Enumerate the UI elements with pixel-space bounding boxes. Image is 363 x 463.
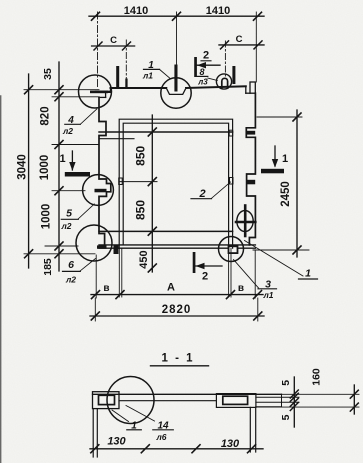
detail circle 1 (top-middle)	[161, 78, 191, 108]
callout label 8/Л3	[197, 76, 218, 80]
svg-text:3: 3	[265, 278, 271, 290]
panel bottom edge (double line)	[99, 245, 255, 248]
svg-text:5: 5	[66, 207, 72, 219]
wire chain extension lines	[24, 90, 99, 254]
section mark 1 (left)	[65, 151, 90, 177]
svg-text:850: 850	[134, 200, 148, 220]
detail circle 3 (bottom-right)	[219, 237, 244, 262]
rib line upper	[99, 131, 233, 133]
svg-text:820: 820	[40, 106, 52, 125]
svg-text:1410: 1410	[206, 5, 230, 17]
callout label 14/Л6 (section)	[126, 406, 173, 430]
lifting loop bar right (filled)	[232, 66, 235, 84]
wire section right dimensions 5/5/160	[290, 377, 358, 427]
svg-text:8: 8	[199, 67, 204, 77]
svg-text:2820: 2820	[162, 304, 192, 316]
wire extension lines from top dimension	[98, 12, 257, 88]
detail circle 14 (section)	[107, 377, 154, 424]
svg-text:2: 2	[202, 271, 208, 283]
key bump on opening right edge (middle)	[230, 178, 234, 185]
wire chain tick marks	[55, 86, 63, 258]
wire bottom dimension 2820	[90, 298, 264, 321]
embedded key bottom-left (filled block)	[114, 246, 119, 255]
svg-text:6: 6	[68, 259, 74, 271]
section mark 2 (top)	[194, 57, 220, 77]
detail circle 4 (top-left)	[79, 75, 112, 108]
svg-text:2450: 2450	[280, 181, 292, 207]
svg-text:850: 850	[134, 145, 148, 165]
small bar in detail circle 8	[222, 78, 228, 88]
svg-text:185: 185	[42, 258, 54, 276]
svg-text:2: 2	[203, 50, 209, 62]
scan border artifact left edge	[0, 96, 2, 463]
panel top edge	[111, 86, 246, 88]
key bump on opening right edge (upper)	[229, 130, 233, 136]
svg-text:1000: 1000	[39, 155, 51, 181]
svg-text:35: 35	[42, 68, 54, 80]
svg-text:1: 1	[59, 153, 65, 165]
svg-text:в: в	[238, 283, 244, 294]
panel top-right corner step and tab	[246, 82, 256, 93]
svg-text:1: 1	[305, 268, 311, 280]
svg-text:1 - 1: 1 - 1	[161, 353, 194, 365]
detail circle 8 (small, top-right)	[216, 74, 231, 89]
callout label 1 (anchor, bottom right)	[245, 241, 318, 280]
detail circle 6 (left-bottom)	[76, 225, 112, 261]
detail circle 5 (left-middle)	[83, 175, 114, 206]
wire dimension C (left)	[92, 42, 135, 50]
wire section title underline	[151, 365, 209, 367]
callout label 4/Л2	[65, 109, 97, 124]
svg-text:в: в	[103, 283, 109, 294]
wire interior dimension chain 850/850/450	[148, 115, 156, 272]
weld bar inside circle 4 (filled)	[90, 91, 108, 94]
svg-text:130: 130	[221, 438, 240, 450]
section right rib recess (hollow)	[223, 396, 248, 404]
section slab bottom line (between ribs)	[119, 400, 216, 402]
callout label 1/Л1	[144, 69, 171, 79]
callout label 3/Л1	[234, 260, 277, 289]
section left end box	[93, 392, 120, 409]
svg-text:л2: л2	[62, 126, 73, 136]
svg-text:5: 5	[280, 380, 292, 386]
callout label 5/Л2	[61, 204, 94, 219]
callout label 2 (opening)	[191, 182, 231, 199]
svg-text:C: C	[236, 34, 243, 45]
weld bar inside circle 5 (filled)	[95, 189, 107, 193]
section left leg	[93, 409, 97, 457]
svg-text:130: 130	[107, 436, 126, 448]
panel top edge recess (detail 1)	[166, 88, 186, 94]
svg-text:4: 4	[67, 115, 74, 126]
svg-text:1: 1	[131, 420, 137, 431]
svg-text:л6: л6	[155, 432, 166, 442]
section slab top line	[93, 393, 282, 395]
callout label 6/Л2	[63, 259, 96, 272]
svg-text:160: 160	[311, 368, 323, 386]
svg-text:2: 2	[198, 188, 205, 200]
opening outline inner rectangle	[123, 123, 228, 245]
embedded key bottom-right (open block)	[229, 246, 238, 253]
section left end recess (hollow)	[99, 395, 115, 404]
svg-text:3040: 3040	[17, 154, 29, 180]
section right rib box	[216, 394, 256, 408]
wire right dimension 2450	[253, 110, 309, 257]
section mark 1 (right)	[261, 146, 284, 173]
svg-text:1: 1	[282, 153, 288, 165]
svg-text:1410: 1410	[124, 5, 148, 17]
rib line lower	[99, 230, 233, 232]
svg-text:5: 5	[280, 414, 292, 420]
panel right edge with notches	[246, 93, 255, 245]
svg-text:1: 1	[148, 60, 154, 71]
lifting loop bar middle (filled)	[174, 65, 177, 92]
svg-text:C: C	[110, 35, 117, 46]
rib end weld mark middle right (filled)	[246, 180, 255, 185]
svg-text:л2: л2	[60, 221, 71, 231]
section right leg	[250, 407, 255, 452]
panel top-left corner quarter notch	[96, 88, 111, 97]
wire left overall dimension 3040	[25, 74, 33, 268]
wire section bottom dimension 130+130	[90, 445, 263, 453]
opening outline outer rectangle	[119, 119, 232, 248]
section right end portion lines	[256, 394, 359, 407]
wire left dimension chain line	[58, 62, 60, 271]
section mark 2 (bottom)	[193, 252, 222, 273]
callout label 1 (section)	[112, 410, 141, 430]
rib end weld mark upper right (filled)	[246, 131, 255, 135]
svg-text:14: 14	[157, 420, 169, 431]
svg-text:450: 450	[138, 250, 150, 268]
lifting anchor cross on right edge	[236, 206, 255, 237]
svg-text:А: А	[167, 281, 175, 293]
rib line upper second	[99, 138, 134, 140]
weld plate bottom-left corner (filled)	[97, 245, 107, 248]
svg-text:л1: л1	[262, 290, 273, 300]
small bar left of loop	[125, 79, 127, 89]
wire tick extension at 850 boundary	[120, 181, 158, 183]
wire top dimension line 1410+1410	[89, 12, 264, 20]
wire B A B dimension line	[91, 291, 263, 299]
svg-text:л3: л3	[197, 78, 208, 87]
svg-text:1000: 1000	[41, 204, 53, 230]
svg-text:л1: л1	[142, 71, 153, 81]
wire B A B extension lines	[96, 249, 255, 299]
wire dimension C (right)	[219, 41, 264, 49]
lifting loop bar left (filled)	[116, 66, 119, 88]
svg-text:л2: л2	[65, 275, 76, 285]
panel left edge with notches	[99, 97, 111, 247]
key bump on opening left edge	[119, 178, 123, 185]
